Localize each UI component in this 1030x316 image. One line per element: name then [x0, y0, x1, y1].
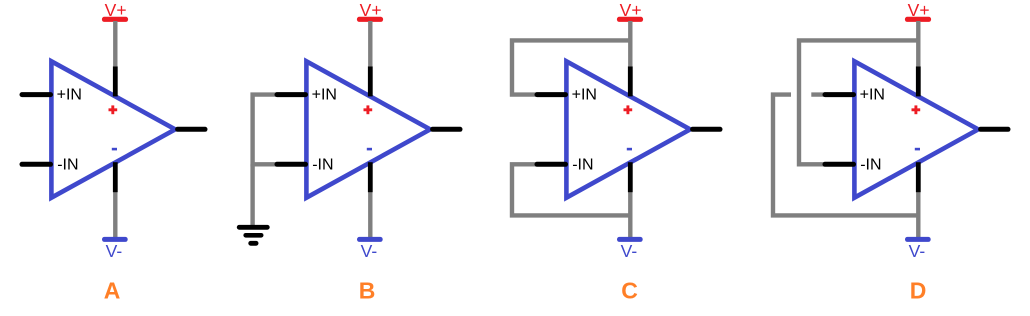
svg-text:C: C — [621, 278, 638, 304]
svg-text:-IN: -IN — [57, 156, 78, 173]
op-amp C noninverting + marker — [624, 105, 633, 114]
op-amp D output pin — [981, 127, 1008, 132]
op-amp C V- pin (black) — [628, 162, 633, 192]
svg-text:B: B — [359, 278, 376, 304]
svg-text:+IN: +IN — [312, 86, 337, 103]
wire V+ to op-amp B — [368, 21, 372, 66]
wire V+ to op-amp A — [113, 21, 117, 66]
op-amp C triangle — [566, 61, 690, 197]
wire op-amp D to V- — [916, 192, 920, 238]
op-amp D +IN pin — [825, 92, 854, 97]
wire D +IN to V- rail (hops over vertical) — [773, 95, 918, 216]
svg-text:A: A — [104, 278, 121, 304]
svg-text:-IN: -IN — [572, 156, 593, 173]
op-amp D -IN pin — [825, 162, 854, 167]
svg-text:+IN: +IN — [860, 86, 885, 103]
V- supply bar (D) — [905, 237, 931, 242]
wire op-amp A to V- — [113, 192, 117, 238]
op-amp B -IN pin — [277, 162, 306, 167]
V+ supply bar (C) — [617, 17, 643, 22]
op-amp B output pin — [433, 127, 460, 132]
op-amp B triangle — [306, 61, 430, 197]
wire op-amp B to V- — [368, 192, 372, 238]
op-amp A noninverting + marker — [109, 105, 118, 114]
op-amp C output pin — [693, 127, 720, 132]
V+ supply bar (D) — [905, 17, 931, 22]
op-amp D inverting - marker — [915, 148, 920, 151]
op-amp D triangle — [854, 61, 978, 197]
op-amp B noninverting + marker — [364, 105, 373, 114]
op-amp B +IN pin — [277, 92, 306, 97]
wire C -IN to V- rail — [512, 164, 630, 215]
op-amp A V+ pin (black) — [113, 66, 118, 96]
svg-text:-IN: -IN — [312, 156, 333, 173]
op-amp D noninverting + marker — [912, 105, 921, 114]
op-amp C inverting - marker — [627, 148, 632, 151]
svg-text:V-: V- — [909, 241, 926, 261]
V- supply bar (A) — [102, 237, 128, 242]
wire B inputs to ground — [250, 164, 254, 226]
V- supply bar (B) — [357, 237, 383, 242]
svg-text:D: D — [910, 278, 927, 304]
ground bar 2 (B) — [246, 233, 262, 238]
wire op-amp C to V- — [628, 192, 632, 238]
ground bar 1 (B) — [239, 225, 267, 230]
V+ supply bar (A) — [102, 17, 128, 22]
ground bar 3 (B) — [251, 241, 256, 246]
op-amp B V- pin (black) — [368, 162, 373, 192]
wire V+ to op-amp C — [628, 21, 632, 66]
op-amp A -IN pin — [22, 162, 51, 167]
V- supply bar (C) — [617, 237, 643, 242]
wire D +IN stub after hop — [811, 92, 828, 96]
op-amp A inverting - marker — [112, 148, 117, 151]
svg-text:+IN: +IN — [57, 86, 82, 103]
op-amp B V+ pin (black) — [368, 66, 373, 96]
op-amp D V- pin (black) — [916, 162, 921, 192]
op-amp B inverting - marker — [367, 148, 372, 151]
wire V+ to op-amp D — [916, 21, 920, 66]
op-amp D V+ pin (black) — [916, 66, 921, 96]
op-amp C -IN pin — [537, 162, 566, 167]
svg-text:V-: V- — [106, 241, 123, 261]
svg-text:V-: V- — [361, 241, 378, 261]
wire C +IN to V+ rail — [512, 40, 630, 94]
V+ supply bar (B) — [357, 17, 383, 22]
svg-text:+IN: +IN — [572, 86, 597, 103]
op-amp A output pin — [178, 127, 205, 132]
op-amp C +IN pin — [537, 92, 566, 97]
svg-text:-IN: -IN — [860, 156, 881, 173]
op-amp A +IN pin — [22, 92, 51, 97]
svg-text:V-: V- — [621, 241, 638, 261]
wire B inputs tied together — [253, 95, 280, 165]
op-amp A V- pin (black) — [113, 162, 118, 192]
op-amp A triangle — [51, 61, 175, 197]
op-amp C V+ pin (black) — [628, 66, 633, 96]
wire D -IN to V+ rail — [799, 40, 918, 164]
